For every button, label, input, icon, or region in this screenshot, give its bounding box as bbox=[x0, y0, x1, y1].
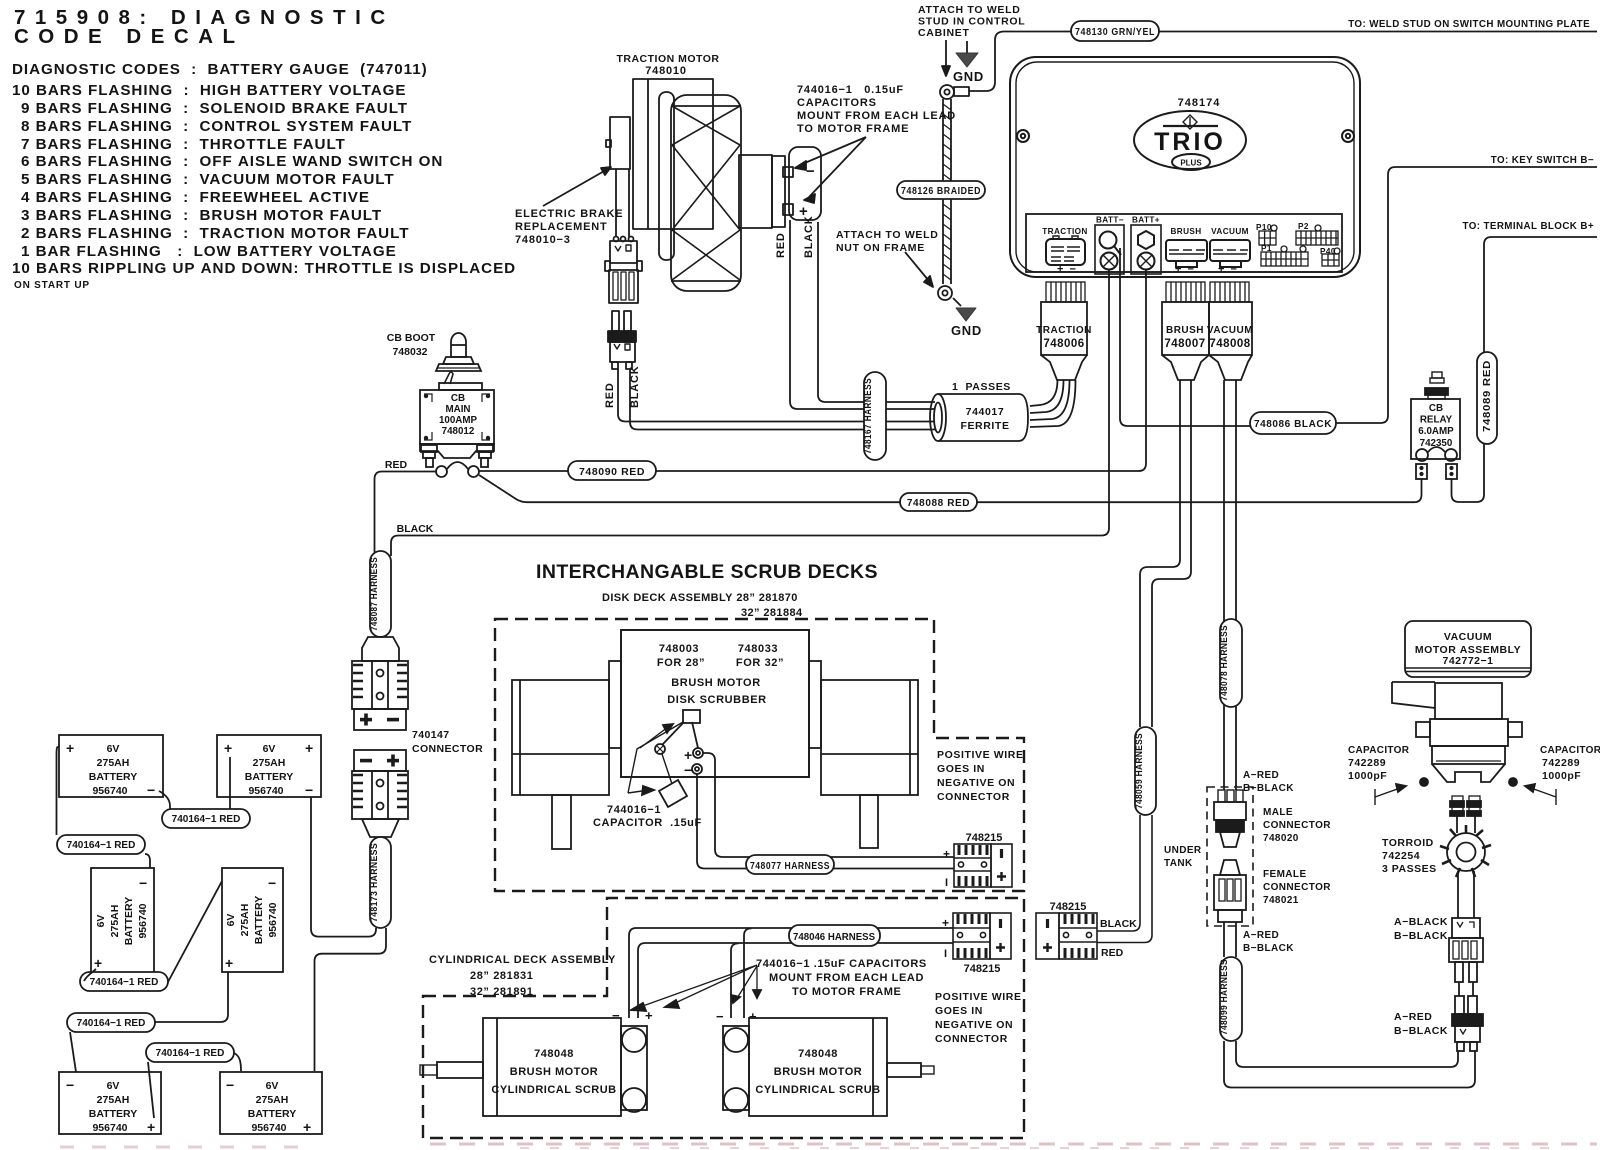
svg-text:CONNECTOR: CONNECTOR bbox=[1263, 820, 1331, 831]
svg-text:INTERCHANGABLE SCRUB DECKS: INTERCHANGABLE SCRUB DECKS bbox=[536, 561, 878, 583]
svg-text:+: + bbox=[303, 1119, 311, 1135]
svg-text:B−BLACK: B−BLACK bbox=[1243, 943, 1294, 954]
svg-text:+: + bbox=[224, 740, 232, 756]
svg-text:B−BLACK: B−BLACK bbox=[1394, 1025, 1448, 1037]
svg-text:BRUSH MOTOR: BRUSH MOTOR bbox=[510, 1066, 598, 1078]
svg-text:TRACTION: TRACTION bbox=[1042, 227, 1088, 236]
svg-text:748059 HARNESS: 748059 HARNESS bbox=[1134, 733, 1145, 809]
svg-text:DISK SCRUBBER: DISK SCRUBBER bbox=[667, 694, 766, 706]
svg-text:748010: 748010 bbox=[645, 65, 687, 77]
svg-text:VACUUM: VACUUM bbox=[1207, 325, 1253, 336]
svg-text:275AH: 275AH bbox=[97, 757, 130, 769]
svg-text:A−BLACK: A−BLACK bbox=[1394, 916, 1448, 928]
svg-text:B−BLACK: B−BLACK bbox=[1243, 783, 1294, 794]
svg-text:744016−1 0.15uF: 744016−1 0.15uF bbox=[797, 84, 904, 96]
svg-text:CAPACITORS: CAPACITORS bbox=[797, 97, 877, 109]
svg-text:CONNECTOR: CONNECTOR bbox=[412, 743, 483, 755]
svg-text:P40: P40 bbox=[1320, 247, 1336, 256]
svg-text:32” 281891: 32” 281891 bbox=[470, 986, 534, 998]
svg-text:GND: GND bbox=[951, 323, 982, 338]
svg-text:−: − bbox=[147, 782, 155, 798]
svg-text:5 BARS FLASHING : VACUUM MOT: 5 BARS FLASHING : VACUUM MOTOR FAULT bbox=[21, 171, 395, 188]
svg-text:FERRITE: FERRITE bbox=[960, 420, 1009, 432]
svg-text:CAPACITOR: CAPACITOR bbox=[1348, 745, 1410, 756]
svg-text:P1: P1 bbox=[1261, 244, 1272, 253]
svg-text:RED: RED bbox=[385, 459, 408, 471]
svg-text:BATT+: BATT+ bbox=[1132, 216, 1160, 225]
svg-text:748010−3: 748010−3 bbox=[515, 234, 571, 246]
svg-text:748078 HARNESS: 748078 HARNESS bbox=[1219, 625, 1230, 701]
svg-text:RELAY: RELAY bbox=[1420, 415, 1453, 426]
svg-text:STUD IN CONTROL: STUD IN CONTROL bbox=[918, 16, 1025, 28]
svg-text:GND: GND bbox=[953, 69, 984, 84]
svg-text:POSITIVE WIRE: POSITIVE WIRE bbox=[935, 991, 1022, 1003]
svg-text:Ɩ: Ɩ bbox=[945, 877, 948, 889]
svg-text:748012: 748012 bbox=[442, 426, 475, 437]
svg-text:956740: 956740 bbox=[248, 785, 283, 797]
svg-text:748087 HARNESS: 748087 HARNESS bbox=[369, 557, 380, 631]
svg-text:CAPACITOR: CAPACITOR bbox=[1540, 745, 1600, 756]
svg-text:748174: 748174 bbox=[1178, 97, 1221, 109]
svg-text:RED: RED bbox=[604, 382, 616, 408]
svg-text:TO: TERMINAL BLOCK B+: TO: TERMINAL BLOCK B+ bbox=[1463, 221, 1595, 232]
svg-text:TRACTION MOTOR: TRACTION MOTOR bbox=[616, 53, 719, 65]
svg-text:740164−1 RED: 740164−1 RED bbox=[172, 814, 241, 825]
svg-text:+: + bbox=[225, 955, 233, 971]
svg-text:748130 GRN/YEL: 748130 GRN/YEL bbox=[1075, 27, 1155, 38]
svg-text:1000pF: 1000pF bbox=[1348, 770, 1387, 782]
svg-text:CYLINDRICAL SCRUB: CYLINDRICAL SCRUB bbox=[755, 1084, 880, 1096]
svg-text:RED: RED bbox=[1101, 947, 1124, 959]
svg-text:DISK DECK ASSEMBLY 28” 281870: DISK DECK ASSEMBLY 28” 281870 bbox=[602, 592, 798, 604]
svg-text:748032: 748032 bbox=[392, 346, 427, 358]
svg-text:MAIN: MAIN bbox=[445, 404, 470, 415]
svg-text:+ −: + − bbox=[1218, 264, 1237, 276]
svg-text:P2: P2 bbox=[1298, 222, 1309, 231]
svg-text:748008: 748008 bbox=[1209, 338, 1250, 350]
svg-text:748099 HARNESS: 748099 HARNESS bbox=[1219, 959, 1230, 1035]
svg-text:−: − bbox=[806, 163, 816, 180]
svg-text:+: + bbox=[147, 1119, 155, 1135]
svg-text:BATTERY: BATTERY bbox=[253, 896, 265, 944]
svg-text:+: + bbox=[943, 847, 950, 861]
svg-text:TRACTION: TRACTION bbox=[1036, 325, 1092, 336]
svg-text:744016−1: 744016−1 bbox=[607, 804, 661, 816]
svg-text:275AH: 275AH bbox=[239, 904, 251, 937]
svg-text:748003: 748003 bbox=[659, 643, 699, 655]
svg-text:748021: 748021 bbox=[1263, 895, 1299, 906]
svg-text:NEGATIVE ON: NEGATIVE ON bbox=[937, 777, 1015, 789]
svg-text:748089 RED: 748089 RED bbox=[1482, 360, 1493, 432]
svg-text:1000pF: 1000pF bbox=[1542, 770, 1581, 782]
svg-text:ATTACH TO WELD: ATTACH TO WELD bbox=[918, 4, 1021, 16]
svg-text:CB: CB bbox=[451, 393, 465, 404]
svg-text:100AMP: 100AMP bbox=[439, 415, 478, 426]
svg-text:−: − bbox=[66, 1077, 74, 1093]
svg-text:956740: 956740 bbox=[92, 785, 127, 797]
svg-text:740147: 740147 bbox=[412, 729, 449, 741]
svg-text:TO: WELD STUD ON SWITCH MOUNTI: TO: WELD STUD ON SWITCH MOUNTING PLATE bbox=[1348, 19, 1590, 30]
svg-text:A−RED: A−RED bbox=[1243, 770, 1279, 781]
svg-text:−: − bbox=[716, 1009, 724, 1024]
svg-text:NEGATIVE ON: NEGATIVE ON bbox=[935, 1019, 1013, 1031]
svg-text:MOUNT FROM EACH LEAD: MOUNT FROM EACH LEAD bbox=[769, 972, 924, 984]
svg-text:+: + bbox=[684, 747, 693, 763]
svg-text:CABINET: CABINET bbox=[918, 27, 970, 39]
svg-text:BATTERY: BATTERY bbox=[89, 1108, 137, 1120]
svg-text:6V: 6V bbox=[263, 743, 276, 755]
svg-text:CODE DECAL: CODE DECAL bbox=[14, 25, 245, 48]
svg-text:FOR 32”: FOR 32” bbox=[736, 657, 784, 669]
svg-text:748033: 748033 bbox=[738, 643, 778, 655]
svg-text:FEMALE: FEMALE bbox=[1263, 869, 1307, 880]
svg-text:742350: 742350 bbox=[1420, 438, 1453, 449]
svg-text:8 BARS FLASHING : CONTROL SY: 8 BARS FLASHING : CONTROL SYSTEM FAULT bbox=[21, 118, 412, 135]
svg-text:10 BARS RIPPLING UP AND DOWN:: 10 BARS RIPPLING UP AND DOWN: THROTTLE I… bbox=[12, 260, 516, 277]
svg-text:ATTACH TO WELD: ATTACH TO WELD bbox=[836, 229, 939, 241]
svg-text:CYLINDRICAL DECK ASSEMBLY: CYLINDRICAL DECK ASSEMBLY bbox=[429, 954, 616, 966]
svg-text:CB: CB bbox=[1429, 403, 1443, 414]
svg-text:748215: 748215 bbox=[1050, 901, 1087, 913]
svg-text:6V: 6V bbox=[107, 1080, 120, 1092]
svg-text:6V: 6V bbox=[225, 914, 237, 927]
svg-text:+ −: + − bbox=[1057, 264, 1076, 276]
svg-text:748090 RED: 748090 RED bbox=[579, 466, 645, 478]
svg-text:9 BARS FLASHING : SOLENOID B: 9 BARS FLASHING : SOLENOID BRAKE FAULT bbox=[21, 100, 408, 117]
svg-text:−: − bbox=[139, 875, 147, 891]
svg-text:REPLACEMENT: REPLACEMENT bbox=[515, 221, 608, 233]
svg-text:7 BARS FLASHING : THROTTLE F: 7 BARS FLASHING : THROTTLE FAULT bbox=[21, 136, 346, 153]
svg-text:−: − bbox=[684, 762, 693, 778]
svg-text:748020: 748020 bbox=[1263, 833, 1299, 844]
svg-text:740164−1 RED: 740164−1 RED bbox=[67, 840, 136, 851]
svg-text:748173 HARNESS: 748173 HARNESS bbox=[369, 843, 380, 922]
svg-text:32” 281884: 32” 281884 bbox=[741, 607, 803, 619]
svg-text:956740: 956740 bbox=[92, 1122, 127, 1134]
svg-text:+: + bbox=[305, 740, 313, 756]
svg-text:1 PASSES: 1 PASSES bbox=[952, 381, 1011, 393]
svg-text:TO MOTOR FRAME: TO MOTOR FRAME bbox=[797, 123, 909, 135]
svg-text:740164−1 RED: 740164−1 RED bbox=[156, 1048, 225, 1059]
svg-text:742289: 742289 bbox=[1348, 757, 1386, 769]
svg-text:FOR 28”: FOR 28” bbox=[657, 657, 705, 669]
svg-text:CONNECTOR: CONNECTOR bbox=[935, 1033, 1008, 1045]
svg-text:956740: 956740 bbox=[137, 903, 149, 938]
svg-text:742289: 742289 bbox=[1542, 757, 1580, 769]
svg-text:CONNECTOR: CONNECTOR bbox=[937, 791, 1010, 803]
svg-text:748077 HARNESS: 748077 HARNESS bbox=[750, 860, 830, 872]
svg-text:P10: P10 bbox=[1256, 223, 1272, 232]
svg-text:BLACK: BLACK bbox=[397, 523, 434, 535]
svg-text:275AH: 275AH bbox=[97, 1094, 130, 1106]
svg-text:GOES IN: GOES IN bbox=[937, 763, 985, 775]
svg-text:CAPACITOR .15uF: CAPACITOR .15uF bbox=[593, 817, 702, 829]
svg-text:MALE: MALE bbox=[1263, 807, 1293, 818]
svg-text:BATTERY: BATTERY bbox=[89, 771, 137, 783]
svg-text:BATTERY: BATTERY bbox=[245, 771, 293, 783]
svg-text:956740: 956740 bbox=[251, 1122, 286, 1134]
svg-text:748086 BLACK: 748086 BLACK bbox=[1254, 418, 1332, 430]
svg-text:VACUUM: VACUUM bbox=[1211, 227, 1249, 236]
svg-text:6V: 6V bbox=[266, 1080, 279, 1092]
svg-text:BRUSH: BRUSH bbox=[1170, 227, 1201, 236]
svg-text:6 BARS FLASHING : OFF AISLE: 6 BARS FLASHING : OFF AISLE WAND SWITCH … bbox=[21, 153, 443, 170]
svg-text:BRUSH: BRUSH bbox=[1166, 325, 1204, 336]
svg-text:748006: 748006 bbox=[1043, 338, 1084, 350]
svg-text:BLACK: BLACK bbox=[1100, 918, 1137, 930]
svg-text:744017: 744017 bbox=[966, 406, 1005, 418]
svg-text:RED: RED bbox=[775, 232, 787, 258]
svg-text:+: + bbox=[94, 955, 102, 971]
svg-text:742772−1: 742772−1 bbox=[1442, 655, 1493, 667]
svg-text:2 BARS FLASHING : TRACTION M: 2 BARS FLASHING : TRACTION MOTOR FAULT bbox=[21, 225, 409, 242]
svg-text:+: + bbox=[66, 740, 74, 756]
svg-text:4 BARS FLASHING : FREEWHEEL: 4 BARS FLASHING : FREEWHEEL ACTIVE bbox=[21, 189, 370, 206]
svg-text:748046 HARNESS: 748046 HARNESS bbox=[793, 931, 875, 943]
svg-text:CONNECTOR: CONNECTOR bbox=[1263, 882, 1331, 893]
svg-text:748215: 748215 bbox=[966, 832, 1003, 844]
svg-text:MOUNT FROM EACH LEAD: MOUNT FROM EACH LEAD bbox=[797, 110, 956, 122]
svg-text:NUT ON FRAME: NUT ON FRAME bbox=[836, 242, 925, 254]
svg-text:748048: 748048 bbox=[798, 1048, 838, 1060]
svg-text:BRUSH MOTOR: BRUSH MOTOR bbox=[671, 677, 761, 689]
svg-text:TRIO: TRIO bbox=[1154, 128, 1226, 156]
svg-text:740164−1 RED: 740164−1 RED bbox=[90, 977, 159, 988]
svg-text:740164−1 RED: 740164−1 RED bbox=[77, 1018, 146, 1029]
svg-text:DIAGNOSTIC CODES : BATTERY G: DIAGNOSTIC CODES : BATTERY GAUGE (747011… bbox=[12, 61, 428, 78]
svg-text:TO: KEY SWITCH B−: TO: KEY SWITCH B− bbox=[1491, 155, 1594, 166]
svg-text:A−RED: A−RED bbox=[1243, 930, 1279, 941]
svg-text:275AH: 275AH bbox=[253, 757, 286, 769]
svg-text:B−BLACK: B−BLACK bbox=[1394, 930, 1448, 942]
svg-text:BRUSH MOTOR: BRUSH MOTOR bbox=[774, 1066, 862, 1078]
svg-text:−: − bbox=[226, 1077, 234, 1093]
svg-text:CB BOOT: CB BOOT bbox=[387, 332, 436, 344]
svg-text:BATTERY: BATTERY bbox=[123, 897, 135, 945]
svg-text:GOES IN: GOES IN bbox=[935, 1005, 983, 1017]
svg-text:TO MOTOR FRAME: TO MOTOR FRAME bbox=[792, 986, 901, 998]
svg-text:POSITIVE WIRE: POSITIVE WIRE bbox=[937, 749, 1024, 761]
svg-text:−: − bbox=[305, 782, 313, 798]
svg-text:744016−1 .15uF CAPACITORS: 744016−1 .15uF CAPACITORS bbox=[756, 958, 927, 970]
svg-text:748088 RED: 748088 RED bbox=[907, 498, 970, 509]
svg-text:748126 BRAIDED: 748126 BRAIDED bbox=[901, 185, 981, 197]
svg-text:748007: 748007 bbox=[1164, 338, 1205, 350]
svg-text:A−RED: A−RED bbox=[1394, 1011, 1432, 1023]
svg-text:ELECTRIC BRAKE: ELECTRIC BRAKE bbox=[515, 208, 623, 220]
svg-text:6V: 6V bbox=[95, 915, 107, 928]
svg-text:748215: 748215 bbox=[964, 963, 1001, 975]
svg-text:Ɩ: Ɩ bbox=[944, 948, 947, 960]
svg-text:10 BARS FLASHING : HIGH BATT: 10 BARS FLASHING : HIGH BATTERY VOLTAGE bbox=[12, 82, 406, 99]
svg-text:+ −: + − bbox=[1175, 264, 1194, 276]
svg-text:1 BAR FLASHING : LOW BATTER: 1 BAR FLASHING : LOW BATTERY VOLTAGE bbox=[21, 243, 397, 260]
svg-text:TORROID: TORROID bbox=[1382, 837, 1434, 849]
svg-text:6.0AMP: 6.0AMP bbox=[1418, 426, 1454, 437]
svg-text:−: − bbox=[268, 875, 276, 891]
svg-text:BLACK: BLACK bbox=[629, 366, 641, 409]
svg-text:ON START UP: ON START UP bbox=[14, 280, 90, 291]
svg-text:275AH: 275AH bbox=[109, 905, 121, 938]
svg-text:BLACK: BLACK bbox=[803, 216, 815, 259]
svg-text:748167 HARNESS: 748167 HARNESS bbox=[863, 378, 874, 454]
svg-text:3 BARS FLASHING : BRUSH MOTO: 3 BARS FLASHING : BRUSH MOTOR FAULT bbox=[21, 207, 382, 224]
svg-text:CYLINDRICAL SCRUB: CYLINDRICAL SCRUB bbox=[491, 1084, 616, 1096]
svg-text:956740: 956740 bbox=[267, 902, 279, 937]
svg-text:28” 281831: 28” 281831 bbox=[470, 970, 534, 982]
svg-text:BATTERY: BATTERY bbox=[248, 1108, 296, 1120]
svg-text:BATT−: BATT− bbox=[1096, 216, 1124, 225]
svg-text:748048: 748048 bbox=[534, 1048, 574, 1060]
svg-text:VACUUM: VACUUM bbox=[1444, 631, 1492, 643]
svg-text:UNDER: UNDER bbox=[1164, 845, 1202, 856]
svg-text:6V: 6V bbox=[107, 743, 120, 755]
svg-text:275AH: 275AH bbox=[256, 1094, 289, 1106]
svg-text:+: + bbox=[942, 916, 949, 930]
svg-text:742254: 742254 bbox=[1382, 850, 1420, 862]
svg-text:PLUS: PLUS bbox=[1180, 159, 1202, 168]
svg-text:TANK: TANK bbox=[1164, 858, 1193, 869]
svg-text:3 PASSES: 3 PASSES bbox=[1382, 863, 1437, 875]
